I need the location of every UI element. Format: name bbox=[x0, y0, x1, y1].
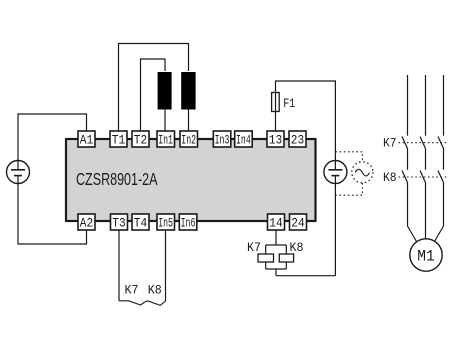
svg-text:K7: K7 bbox=[125, 283, 139, 298]
svg-text:23: 23 bbox=[291, 132, 304, 147]
wire In5 down bbox=[165, 230, 167, 301]
svg-text:In6: In6 bbox=[181, 215, 196, 230]
power source G1 battery bars bbox=[11, 161, 25, 184]
wire link S2 to In2 bbox=[188, 110, 190, 132]
terminal In4 bbox=[235, 131, 253, 147]
contact K8 blade L3 bbox=[438, 171, 444, 183]
terminal 23 bbox=[289, 131, 306, 147]
motor M1 bbox=[410, 239, 442, 271]
svg-text:A1: A1 bbox=[80, 132, 94, 147]
contact K7 blade L2 bbox=[420, 137, 426, 149]
terminal In2 bbox=[180, 131, 198, 147]
svg-text:K8: K8 bbox=[148, 283, 162, 298]
dashed actuation line K8 bbox=[399, 176, 448, 178]
power source G2 battery bars bbox=[328, 170, 342, 176]
dashed wire to AC source top bbox=[335, 152, 362, 162]
svg-text:T4: T4 bbox=[134, 215, 148, 230]
contact K8 blade L2 bbox=[420, 171, 426, 183]
contact K7 blade L1 bbox=[402, 137, 408, 149]
svg-text:In3: In3 bbox=[215, 132, 230, 147]
module CZSR8901-2A body bbox=[66, 139, 316, 221]
svg-text:In5: In5 bbox=[158, 215, 173, 230]
svg-text:K7: K7 bbox=[247, 240, 261, 255]
terminal 14 bbox=[268, 214, 285, 230]
contact K8 (feedback loop) bbox=[146, 301, 166, 305]
wire coils to bottom bus bbox=[266, 262, 336, 276]
AC source G3 sine symbol bbox=[355, 169, 369, 176]
svg-text:13: 13 bbox=[269, 132, 282, 147]
wire 13 to fuse bbox=[276, 81, 336, 161]
link bar S2 (black) bbox=[181, 72, 195, 110]
svg-text:K8: K8 bbox=[290, 240, 304, 255]
svg-text:In1: In1 bbox=[158, 132, 173, 147]
terminal A2 bbox=[78, 214, 95, 230]
svg-text:K7: K7 bbox=[383, 136, 397, 151]
svg-text:14: 14 bbox=[269, 215, 283, 230]
wire G2 to bottom bbox=[334, 161, 336, 276]
terminal In6 bbox=[179, 214, 197, 230]
phase line L2 bbox=[425, 75, 427, 239]
terminal T3 bbox=[111, 214, 128, 230]
svg-text:M1: M1 bbox=[417, 247, 434, 265]
dashed actuation line K7 bbox=[399, 142, 448, 144]
svg-text:T2: T2 bbox=[134, 132, 147, 147]
power source G2 circle bbox=[324, 161, 347, 184]
svg-text:24: 24 bbox=[291, 215, 305, 230]
phase line L1 bbox=[408, 75, 417, 242]
contact K7 blade L3 bbox=[438, 137, 444, 149]
svg-text:CZSR8901-2A: CZSR8901-2A bbox=[76, 169, 158, 189]
wire 14 to coils bbox=[266, 230, 287, 254]
link bar S1 (black) bbox=[158, 72, 172, 110]
svg-text:T1: T1 bbox=[112, 132, 126, 147]
wire T2 to In1 link bbox=[141, 59, 166, 131]
phase line L3 bbox=[434, 75, 443, 242]
wire link S1 to In1 bbox=[164, 110, 166, 132]
svg-text:In2: In2 bbox=[181, 132, 196, 147]
power source G1 circle bbox=[7, 161, 30, 184]
terminal 13 bbox=[267, 131, 284, 147]
relay coil K8 bbox=[279, 254, 293, 262]
terminal T4 bbox=[132, 214, 149, 230]
relay coil K7 bbox=[258, 254, 274, 262]
dashed wire from AC source bottom bbox=[335, 183, 362, 195]
terminal In5 bbox=[157, 214, 175, 230]
contact K8 blade L1 bbox=[402, 171, 408, 183]
svg-text:In4: In4 bbox=[236, 132, 251, 147]
AC source G3 dashed circle bbox=[352, 162, 373, 183]
svg-text:K8: K8 bbox=[383, 170, 397, 185]
terminal 24 bbox=[290, 214, 307, 230]
svg-text:F1: F1 bbox=[283, 96, 295, 111]
svg-text:A2: A2 bbox=[80, 215, 93, 230]
terminal T2 bbox=[132, 131, 149, 147]
svg-text:T3: T3 bbox=[112, 215, 125, 230]
wire T1 to In2 link bbox=[119, 44, 189, 132]
wire A2 bottom loop bbox=[18, 184, 87, 245]
terminal A1 bbox=[78, 131, 95, 147]
wire A1 top loop bbox=[18, 114, 87, 161]
fuse F1 bbox=[272, 93, 280, 112]
terminal In1 bbox=[157, 131, 175, 147]
terminal T1 bbox=[110, 131, 127, 147]
terminal In3 bbox=[213, 131, 231, 147]
contact K7 (feedback loop) bbox=[119, 301, 146, 305]
wire T3 down bbox=[118, 230, 120, 301]
